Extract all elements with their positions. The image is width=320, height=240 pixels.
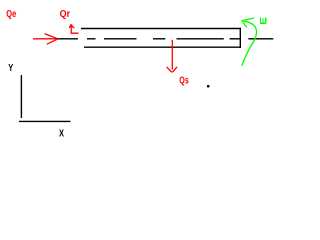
svg-text:X: X xyxy=(59,129,64,140)
arrow Qe (red horizontal force arrow) xyxy=(33,34,58,45)
axis X line xyxy=(19,120,71,122)
node dot xyxy=(207,85,210,88)
label omega xyxy=(260,18,266,24)
svg-text:Qe: Qe xyxy=(6,9,16,20)
pipe bottom line xyxy=(84,46,241,48)
pipe right end cap xyxy=(239,28,241,48)
arrow omega (green rotation arrow) xyxy=(242,18,257,66)
axis Y line xyxy=(20,75,22,118)
wire: centerline solid segment left of pipe xyxy=(58,38,79,40)
svg-text:Qr: Qr xyxy=(60,9,71,20)
svg-text:Qs: Qs xyxy=(179,75,189,86)
arrow Qs (red vertical force arrow down) xyxy=(167,40,177,73)
arrow Qr (red L-shaped arrow pointing up) xyxy=(69,24,78,33)
svg-text:Y: Y xyxy=(8,63,13,74)
pipe top line xyxy=(81,28,241,30)
centerline dashes (shaft axis) xyxy=(87,38,273,40)
